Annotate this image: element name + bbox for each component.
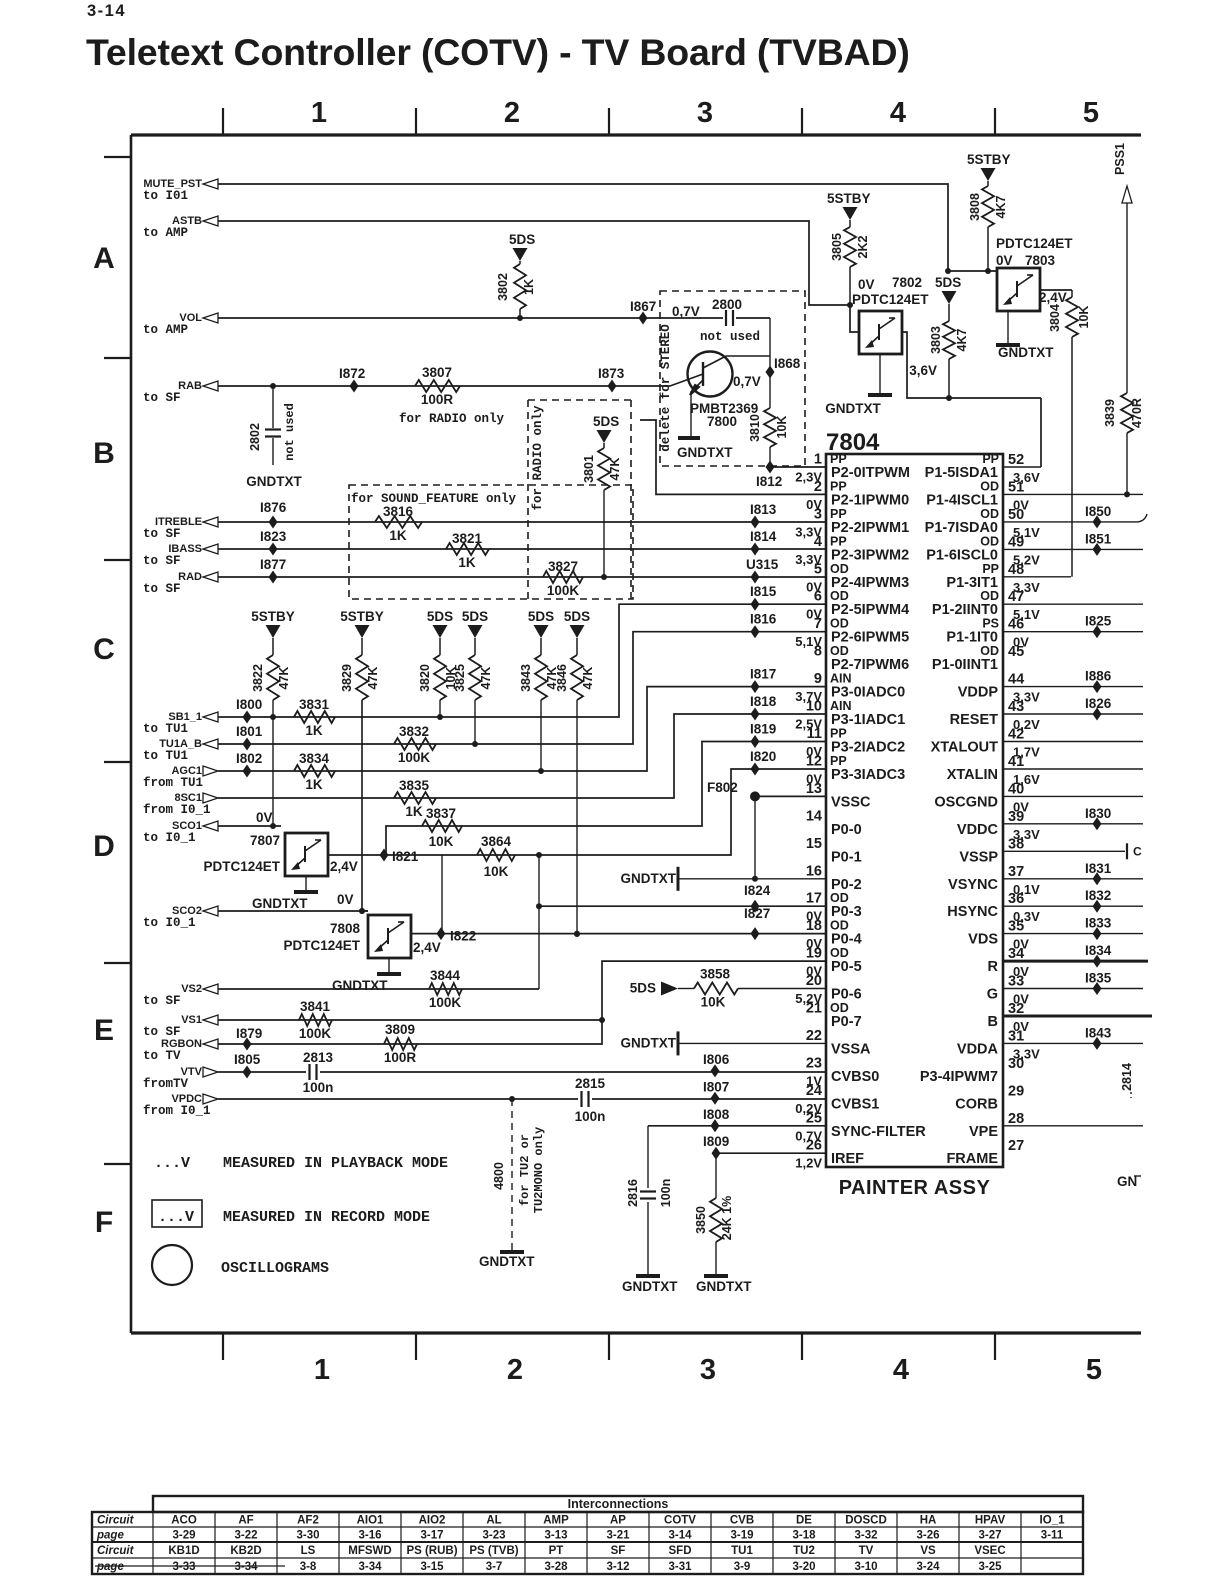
svg-text:42: 42	[1008, 727, 1024, 743]
svg-text:VS2: VS2	[181, 983, 202, 995]
svg-text:22: 22	[806, 1028, 822, 1044]
wire 3822 leg down	[270, 717, 276, 829]
wire pin26 IREF	[716, 1152, 826, 1154]
svg-text:3827: 3827	[548, 559, 578, 574]
IC 7804 pin 8 P2-7IPWM6	[814, 644, 909, 674]
svg-text:5STBY: 5STBY	[340, 609, 384, 624]
svg-text:24K 1%: 24K 1%	[720, 1196, 734, 1240]
svg-text:5: 5	[814, 561, 822, 577]
transistor 7808 PDTC124ET	[283, 915, 440, 958]
svg-text:1K: 1K	[458, 555, 476, 570]
svg-text:GNDTXT: GNDTXT	[479, 1254, 535, 1269]
svg-text:HPAV: HPAV	[975, 1515, 1006, 1527]
IC 7804 pin 28 VPE	[969, 1111, 1024, 1140]
svg-text:3-30: 3-30	[296, 1530, 319, 1542]
svg-text:35: 35	[1008, 919, 1024, 935]
svg-text:page: page	[96, 1530, 124, 1542]
svg-text:5STBY: 5STBY	[967, 152, 1011, 167]
svg-text:4K7: 4K7	[994, 195, 1008, 218]
svg-text:3-27: 3-27	[978, 1530, 1001, 1542]
wire ITREBLE to pin3	[218, 521, 826, 523]
power 5DS (3803)	[935, 275, 961, 304]
svg-text:3801: 3801	[582, 455, 596, 483]
port AGC1 (from TU1)	[143, 765, 218, 790]
svg-text:4: 4	[814, 534, 822, 550]
power 5DS (3820)	[427, 609, 453, 638]
resistor 3821 1K	[446, 531, 489, 570]
wire pin 32 net B	[1003, 1015, 1152, 1018]
port SCO1 (to I0_1)	[143, 820, 218, 845]
IC 7804 pin 11 P3-2IADC2	[806, 726, 905, 759]
ground GNDTXT (7803)	[996, 311, 1054, 360]
svg-text:IO_1: IO_1	[1040, 1515, 1066, 1527]
IC 7804 pin 25 SYNC-FILTER	[795, 1110, 926, 1143]
ground GNDTXT (2816)	[622, 1276, 678, 1294]
svg-text:AIO1: AIO1	[357, 1515, 384, 1527]
svg-text:6: 6	[814, 589, 822, 605]
svg-text:P0-7: P0-7	[831, 1014, 862, 1030]
IC 7804 pin 48 P1-3IT1	[946, 562, 1040, 595]
svg-text:3841: 3841	[300, 999, 331, 1014]
svg-text:I818: I818	[750, 694, 777, 709]
svg-text:16: 16	[806, 863, 822, 879]
capacitor 2802 (not used)	[246, 386, 302, 489]
port VPDC (from I0_1)	[143, 1093, 218, 1118]
svg-text:13: 13	[806, 781, 822, 797]
junction	[270, 383, 276, 389]
svg-text:2: 2	[504, 97, 520, 129]
svg-text:2,4V: 2,4V	[1039, 290, 1067, 305]
junction I873	[598, 366, 625, 393]
svg-text:I813: I813	[750, 502, 777, 517]
resistor 3835 1K	[394, 778, 436, 819]
junction	[270, 714, 276, 720]
resistor 3846 47K	[555, 638, 595, 934]
resistor 3864 10K	[477, 834, 515, 879]
svg-text:PP: PP	[830, 452, 847, 466]
svg-text:I816: I816	[750, 612, 777, 627]
svg-text:3-21: 3-21	[606, 1530, 630, 1542]
junction I822	[437, 927, 477, 944]
IC 7804 pin 36 HSYNC	[947, 891, 1040, 924]
resistor 3839	[1103, 393, 1144, 497]
transistor 7807 PDTC124ET	[203, 833, 357, 876]
wire 7803 collector	[1040, 289, 1072, 291]
node 0,7V	[672, 304, 700, 319]
svg-text:3-18: 3-18	[792, 1530, 816, 1542]
wire collector node	[769, 318, 771, 408]
svg-text:Circuit: Circuit	[97, 1515, 135, 1527]
junction	[509, 1096, 515, 1102]
node 0V	[256, 810, 273, 825]
capacitor 2816 100n	[626, 1126, 673, 1274]
node 3,6V	[909, 363, 937, 378]
svg-text:3831: 3831	[299, 697, 330, 712]
svg-text:PP: PP	[830, 479, 847, 493]
svg-text:to AMP: to AMP	[143, 226, 188, 240]
IC 7804 pin 17 P0-3	[806, 891, 862, 924]
svg-text:I825: I825	[1085, 614, 1112, 629]
svg-text:47K: 47K	[581, 667, 595, 690]
wire to pin17	[539, 905, 826, 907]
junction I818	[750, 694, 777, 721]
svg-text:14: 14	[806, 808, 822, 824]
svg-text:VDDA: VDDA	[957, 1041, 999, 1057]
svg-text:2813: 2813	[303, 1050, 334, 1065]
svg-text:51: 51	[1008, 479, 1024, 495]
svg-text:3: 3	[700, 1354, 716, 1386]
svg-text:3834: 3834	[299, 751, 330, 766]
IC 7804 pin 9 P3-0IADC0	[795, 671, 905, 704]
svg-text:10K: 10K	[429, 834, 454, 849]
wire pin2	[640, 420, 826, 494]
junction U315	[746, 557, 779, 584]
svg-text:PDTC124ET: PDTC124ET	[203, 859, 280, 874]
svg-text:OD: OD	[830, 891, 849, 905]
svg-text:0V: 0V	[337, 892, 354, 907]
power 5DS (3802)	[509, 232, 535, 261]
svg-text:100R: 100R	[421, 392, 454, 407]
svg-text:KB2D: KB2D	[230, 1545, 261, 1557]
svg-text:P0-0: P0-0	[831, 822, 862, 838]
ground GNDTXT (pin22 VSSA)	[621, 1031, 827, 1055]
svg-text:I851: I851	[1085, 531, 1112, 546]
svg-text:Teletext Controller (COTV) - T: Teletext Controller (COTV) - TV Board (T…	[86, 31, 910, 73]
svg-text:to I0_1: to I0_1	[143, 916, 196, 930]
wire pin 34 net R	[1003, 943, 1148, 968]
svg-text:4: 4	[893, 1354, 909, 1386]
svg-text:23: 23	[806, 1055, 822, 1071]
svg-text:TU1: TU1	[731, 1545, 753, 1557]
node 0V	[337, 892, 354, 907]
svg-text:47K: 47K	[608, 458, 622, 481]
svg-text:I808: I808	[703, 1107, 730, 1122]
svg-text:3-11: 3-11	[1041, 1530, 1064, 1542]
wire pin 51 net P1-4ISCL1	[1003, 493, 1143, 495]
svg-text:COTV: COTV	[664, 1515, 696, 1527]
IC 7804 pin 2 P2-1IPWM0	[806, 479, 909, 512]
svg-text:CVB: CVB	[730, 1515, 754, 1527]
svg-text:P3-3IADC3: P3-3IADC3	[831, 767, 905, 783]
IC 7804 pin 18 P0-4	[806, 918, 862, 951]
junction diamond RGBON	[243, 1038, 252, 1051]
resistor 3810 10K	[748, 408, 789, 467]
junction I824 area	[744, 883, 771, 898]
svg-text:10: 10	[806, 699, 822, 715]
svg-text:39: 39	[1008, 809, 1024, 825]
wire pin 40 net OSCGND	[1003, 795, 1143, 797]
svg-text:A: A	[93, 242, 115, 275]
svg-text:P0-5: P0-5	[831, 959, 862, 975]
svg-text:P0-1: P0-1	[831, 849, 862, 865]
svg-text:3-34: 3-34	[234, 1561, 258, 1573]
svg-text:3-31: 3-31	[668, 1561, 692, 1573]
svg-text:XTALIN: XTALIN	[947, 767, 998, 783]
svg-text:2814: 2814	[1120, 1063, 1134, 1091]
svg-text:VDDC: VDDC	[957, 822, 999, 838]
svg-text:26: 26	[806, 1138, 822, 1154]
svg-text:5: 5	[1086, 1354, 1102, 1386]
junction I812	[756, 461, 782, 490]
svg-text:from TU1: from TU1	[143, 776, 203, 790]
svg-text:48: 48	[1008, 562, 1024, 578]
legend: record mode	[152, 1200, 430, 1227]
wire SB1_1 to pin6	[218, 604, 826, 717]
svg-text:to TV: to TV	[143, 1049, 181, 1063]
resistor 3802 1K	[496, 261, 536, 318]
wire pin 28 net VPE	[1003, 1125, 1143, 1127]
wire pin 43 net RESET	[1003, 696, 1143, 721]
svg-text:I868: I868	[774, 356, 801, 371]
IC 7804 pin 30 P3-4IPWM7	[920, 1056, 1024, 1085]
table: Interconnections	[92, 1496, 1083, 1574]
junction I819	[750, 722, 776, 749]
svg-text:3-12: 3-12	[606, 1561, 629, 1573]
svg-text:FRAME: FRAME	[946, 1151, 998, 1167]
svg-text:40: 40	[1008, 781, 1024, 797]
junction I867	[630, 299, 656, 325]
svg-text:PP: PP	[982, 452, 999, 466]
svg-text:I819: I819	[750, 722, 776, 737]
IC 7804 pin 32 B	[988, 1001, 1030, 1034]
port ITREBLE (to SF)	[143, 516, 218, 541]
IC 7804 pin 29 CORB	[955, 1083, 1024, 1112]
svg-text:3-23: 3-23	[482, 1530, 505, 1542]
svg-text:I873: I873	[598, 366, 625, 381]
junction I809	[703, 1134, 729, 1160]
svg-text:3-25: 3-25	[978, 1561, 1002, 1573]
svg-text:5STBY: 5STBY	[827, 191, 871, 206]
resistor 3850 24K 1%	[694, 1153, 734, 1274]
svg-text:OD: OD	[830, 644, 849, 658]
resistor 3822 47K	[251, 638, 291, 717]
node 2,4V	[1039, 290, 1067, 305]
svg-text:B: B	[988, 1014, 998, 1030]
junction I827	[744, 900, 770, 922]
power 5STBY (3822)	[251, 609, 295, 638]
svg-text:I886: I886	[1085, 669, 1112, 684]
svg-text:I809: I809	[703, 1134, 729, 1149]
svg-text:2K2: 2K2	[856, 235, 870, 258]
svg-text:3-26: 3-26	[916, 1530, 939, 1542]
svg-text:3809: 3809	[385, 1022, 415, 1037]
svg-text:4: 4	[890, 97, 906, 129]
port SCO2 (to I0_1)	[143, 905, 218, 930]
dashed box: for RADIO only	[528, 400, 631, 599]
power 5STBY (3805)	[827, 191, 871, 220]
off-page GNDTXT label	[1117, 1174, 1141, 1189]
svg-text:47K: 47K	[479, 667, 493, 690]
svg-text:3-20: 3-20	[792, 1561, 815, 1573]
svg-text:37: 37	[1008, 864, 1024, 880]
ground GNDTXT (7800)	[677, 391, 733, 460]
resistor 3844 100K	[429, 968, 462, 1010]
IC 7804 pin 10 P3-1IADC1	[795, 699, 905, 732]
ground GNDTXT (3850)	[696, 1276, 752, 1294]
svg-text:to SF: to SF	[143, 1025, 181, 1039]
svg-text:...V: ...V	[154, 1155, 190, 1172]
svg-text:GNDTXT: GNDTXT	[332, 978, 388, 993]
svg-text:1K: 1K	[305, 777, 323, 792]
svg-text:PS (TVB): PS (TVB)	[469, 1545, 518, 1557]
svg-text:SFD: SFD	[669, 1545, 692, 1557]
svg-text:3843: 3843	[519, 664, 533, 692]
wire 3829 leg down	[359, 700, 368, 914]
svg-text:PDTC124ET: PDTC124ET	[283, 938, 360, 953]
wire ASTB	[218, 221, 850, 305]
svg-text:TV: TV	[859, 1545, 874, 1557]
svg-text:MEASURED IN PLAYBACK MODE: MEASURED IN PLAYBACK MODE	[223, 1155, 448, 1172]
IC 7804 pin 37 VSYNC	[948, 864, 1040, 897]
resistor 3843 47K	[519, 638, 559, 771]
svg-text:P3-4IPWM7: P3-4IPWM7	[920, 1069, 998, 1085]
junction I879	[236, 1026, 262, 1041]
transistor 7800 PMBT2369	[670, 352, 770, 430]
svg-text:GNDTXT: GNDTXT	[252, 896, 308, 911]
wire pin25 SYNC-FILTER	[648, 1125, 826, 1127]
svg-text:7: 7	[814, 616, 822, 632]
svg-text:3808: 3808	[968, 193, 982, 221]
svg-text:SYNC-FILTER: SYNC-FILTER	[831, 1124, 926, 1140]
svg-text:3832: 3832	[399, 724, 429, 739]
svg-text:VSSA: VSSA	[831, 1041, 871, 1057]
svg-text:F802: F802	[707, 780, 738, 795]
wire pin 50 net P1-7ISDA0	[1003, 504, 1138, 529]
junction I814	[750, 529, 777, 556]
svg-text:30: 30	[1008, 1056, 1024, 1072]
dashed box: delete for STEREO	[659, 291, 805, 466]
wire pin 44 net VDDP	[1003, 669, 1143, 694]
svg-text:I814: I814	[750, 529, 777, 544]
wire 7808 collector to pin18	[411, 933, 826, 935]
resistor 3816 1K	[375, 504, 422, 543]
svg-text:CVBS0: CVBS0	[831, 1069, 879, 1085]
svg-text:E: E	[94, 1014, 114, 1047]
svg-text:2,4V: 2,4V	[413, 940, 441, 955]
svg-text:33: 33	[1008, 974, 1024, 990]
svg-text:I820: I820	[750, 749, 776, 764]
svg-text:PDTC124ET: PDTC124ET	[852, 292, 929, 307]
IC 7804 pin 44 VDDP	[958, 672, 1040, 705]
svg-text:3804: 3804	[1048, 304, 1062, 332]
svg-text:0V: 0V	[858, 277, 875, 292]
svg-text:to I01: to I01	[143, 189, 188, 203]
IC 7804 pin 12 P3-3IADC3	[806, 754, 905, 787]
IC 7804 pin 5 P2-4IPWM3	[806, 561, 909, 594]
port 8SC1 (from I0_1)	[143, 792, 218, 817]
ground GNDTXT (4800)	[479, 1252, 535, 1269]
svg-text:100K: 100K	[398, 750, 431, 765]
svg-text:I805: I805	[234, 1052, 261, 1067]
svg-text:MFSWD: MFSWD	[348, 1545, 391, 1557]
port RAD (to SF)	[143, 571, 218, 596]
junction I806	[703, 1052, 730, 1078]
svg-text:5DS: 5DS	[509, 232, 535, 247]
svg-text:3821: 3821	[452, 531, 483, 546]
svg-text:18: 18	[806, 918, 822, 934]
resistor 3841 100K	[299, 999, 332, 1041]
svg-text:3802: 3802	[496, 273, 510, 301]
svg-text:29: 29	[1008, 1083, 1024, 1099]
svg-text:3835: 3835	[399, 778, 430, 793]
svg-text:PAINTER ASSY: PAINTER ASSY	[839, 1177, 991, 1199]
svg-text:I830: I830	[1085, 806, 1111, 821]
net F802	[707, 780, 826, 882]
svg-text:2816: 2816	[626, 1179, 640, 1207]
svg-text:delete for STEREO: delete for STEREO	[659, 324, 673, 452]
svg-text:to AMP: to AMP	[143, 323, 188, 337]
svg-text:LS: LS	[301, 1545, 316, 1557]
svg-text:5DS: 5DS	[564, 609, 590, 624]
svg-text:PSS1: PSS1	[1113, 143, 1127, 175]
svg-text:for RADIO only: for RADIO only	[399, 412, 505, 426]
svg-text:20: 20	[806, 973, 822, 989]
svg-text:5STBY: 5STBY	[251, 609, 295, 624]
svg-text:AF2: AF2	[297, 1515, 319, 1527]
svg-text:3825: 3825	[453, 664, 467, 692]
svg-text:I806: I806	[703, 1052, 730, 1067]
wire pin 47 net P1-2IINT0	[1003, 603, 1143, 605]
svg-text:to SF: to SF	[143, 391, 181, 405]
svg-text:I877: I877	[260, 557, 286, 572]
wire 7807 collector to pin12	[328, 769, 826, 855]
svg-text:I826: I826	[1085, 696, 1112, 711]
svg-text:OSCILLOGRAMS: OSCILLOGRAMS	[221, 1260, 329, 1277]
legend: playback mode	[154, 1155, 448, 1172]
wire pin 31 net VDDA	[1003, 1025, 1143, 1050]
svg-text:100n: 100n	[303, 1080, 334, 1095]
IC 7804 pin 26 IREF	[795, 1138, 864, 1171]
svg-text:3: 3	[814, 506, 822, 522]
svg-text:I807: I807	[703, 1079, 729, 1094]
junction I823	[260, 529, 287, 556]
svg-text:5: 5	[1083, 97, 1099, 129]
svg-text:C: C	[93, 633, 115, 666]
svg-text:ACO: ACO	[171, 1515, 197, 1527]
svg-text:VSEC: VSEC	[974, 1545, 1005, 1557]
svg-text:3829: 3829	[340, 664, 354, 692]
svg-text:OD: OD	[830, 562, 849, 576]
IC 7804 pin 20 P0-6	[795, 973, 861, 1006]
svg-text:3807: 3807	[422, 365, 452, 380]
svg-text:25: 25	[806, 1110, 822, 1126]
svg-text:PS: PS	[982, 617, 999, 631]
svg-text:GNDTXT: GNDTXT	[246, 474, 302, 489]
svg-text:I802: I802	[236, 751, 262, 766]
svg-text:3: 3	[697, 97, 713, 129]
svg-text:4800: 4800	[492, 1162, 506, 1190]
svg-text:11: 11	[807, 726, 822, 742]
junction	[472, 741, 478, 747]
svg-text:not used: not used	[700, 330, 760, 344]
junction I868	[766, 356, 801, 379]
svg-text:44: 44	[1008, 672, 1024, 688]
svg-text:46: 46	[1008, 617, 1024, 633]
IC 7804 pin 45 P1-0IINT1	[932, 644, 1024, 673]
junction I801	[236, 724, 263, 751]
IC 7804 pin 46 P1-1IT0	[946, 617, 1029, 650]
wire 7803 base	[945, 268, 997, 274]
svg-text:I867: I867	[630, 299, 656, 314]
power 5DS (3846)	[564, 609, 590, 638]
svg-text:47K: 47K	[277, 667, 291, 690]
svg-text:C: C	[1133, 844, 1142, 858]
capacitor 2814 (off-page)	[1120, 1063, 1134, 1098]
svg-text:49: 49	[1008, 534, 1024, 550]
svg-text:OD: OD	[980, 644, 999, 658]
svg-text:45: 45	[1008, 644, 1024, 660]
svg-text:10K: 10K	[701, 995, 726, 1010]
